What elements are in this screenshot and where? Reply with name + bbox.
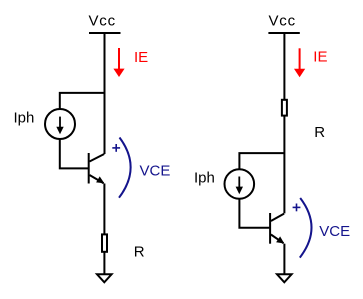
current arrow IE (left)	[113, 48, 124, 77]
resistor R (left)	[102, 234, 107, 251]
VCE arc (right)	[300, 198, 312, 258]
wire emitter to resistor (left)	[103, 184, 105, 235]
svg-text:Vcc: Vcc	[89, 13, 116, 30]
wire resistor to collector (right)	[283, 116, 285, 214]
wire Vcc rail to resistor (right)	[283, 32, 285, 100]
plus sign of VCE (left)	[112, 144, 120, 152]
svg-text:Iph: Iph	[194, 170, 215, 187]
wire current source to base (right)	[239, 199, 269, 228]
wire branch to current source (right)	[239, 153, 284, 169]
current source Iph (right)	[225, 169, 255, 199]
current source Iph (left)	[45, 109, 75, 139]
wire branch to current source (left)	[60, 93, 105, 109]
wire resistor to ground (left)	[103, 252, 105, 274]
resistor R (right)	[282, 100, 287, 116]
ground (right)	[277, 274, 292, 282]
wire current source to base (left)	[60, 139, 88, 168]
Vcc supply rail (left circuit)	[89, 32, 121, 34]
Vcc supply rail (right circuit)	[268, 32, 299, 34]
svg-text:IE: IE	[134, 49, 148, 66]
ground (left)	[97, 274, 112, 282]
svg-text:VCE: VCE	[140, 163, 171, 180]
svg-text:R: R	[134, 244, 145, 261]
transistor Q1 (left)	[89, 153, 105, 184]
wire Vcc rail to collector (left)	[104, 32, 106, 154]
svg-text:Iph: Iph	[14, 110, 35, 127]
svg-text:IE: IE	[313, 49, 327, 66]
svg-text:VCE: VCE	[319, 223, 350, 240]
VCE arc (left)	[119, 138, 131, 198]
wire emitter to ground (right)	[283, 244, 285, 274]
svg-text:Vcc: Vcc	[269, 13, 296, 30]
transistor Q2 (right)	[270, 213, 284, 244]
current arrow IE (right)	[294, 48, 305, 77]
plus sign of VCE (right)	[293, 204, 301, 212]
svg-text:R: R	[314, 124, 325, 141]
